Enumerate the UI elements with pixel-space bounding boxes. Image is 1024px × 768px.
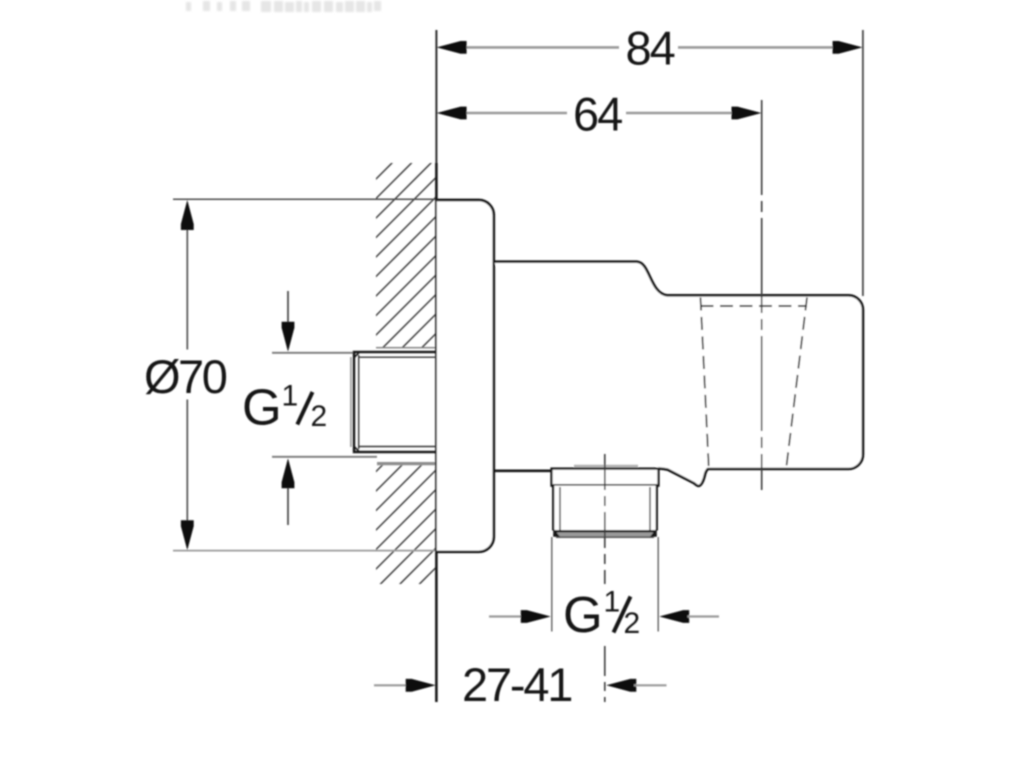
svg-text:1: 1 xyxy=(604,586,621,619)
svg-text:27-41: 27-41 xyxy=(462,658,571,711)
svg-text:1: 1 xyxy=(282,380,299,413)
svg-text:84: 84 xyxy=(626,22,675,75)
svg-text:2: 2 xyxy=(624,607,641,640)
svg-text:Ø70: Ø70 xyxy=(144,350,227,403)
svg-text:64: 64 xyxy=(573,88,622,141)
svg-text:2: 2 xyxy=(311,400,328,433)
svg-text:G: G xyxy=(563,586,603,643)
svg-text:G: G xyxy=(242,379,282,436)
